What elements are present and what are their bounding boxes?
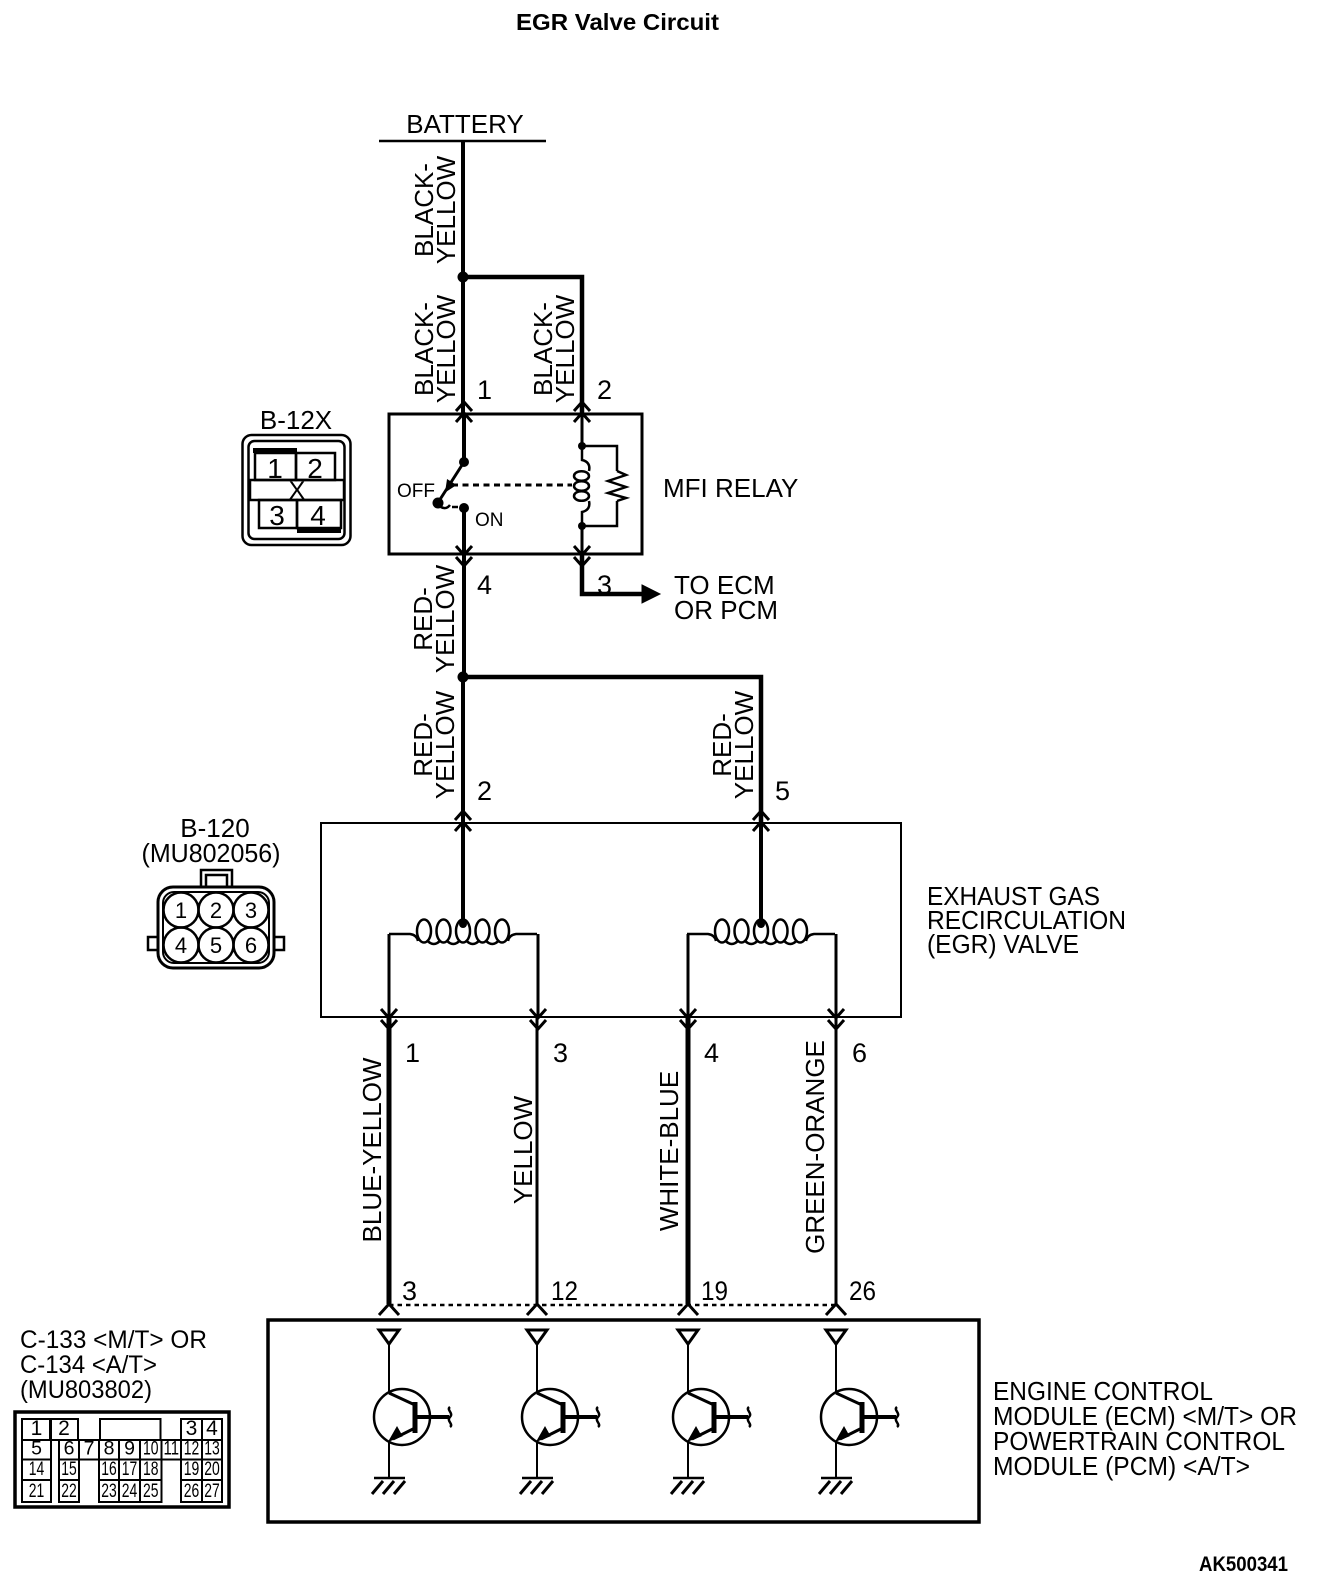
svg-text:(MU803802): (MU803802): [20, 1376, 152, 1404]
relay switch output wire: [462, 508, 466, 554]
svg-text:12: 12: [551, 1276, 578, 1306]
svg-text:19: 19: [701, 1276, 728, 1306]
EGR solenoid B right lead: [835, 934, 838, 1017]
connector chevron ECM pin 12: [527, 1304, 547, 1315]
wire battery to junction (black-yellow): [461, 141, 465, 279]
svg-text:5: 5: [775, 776, 790, 806]
connector C-133 cavity 26: [181, 1480, 202, 1502]
wire relay pin 4 to junction (red-yellow): [462, 554, 466, 679]
wire relay pin 3 to ECM/PCM: [582, 554, 642, 594]
ECM box: [268, 1320, 979, 1522]
svg-text:C-134 <A/T>: C-134 <A/T>: [20, 1351, 157, 1379]
svg-text:13: 13: [204, 1438, 220, 1460]
relay ON contact: [459, 503, 469, 513]
junction node (battery feed split): [458, 272, 469, 283]
svg-text:YELLOW: YELLOW: [729, 690, 759, 799]
svg-text:6: 6: [64, 1438, 75, 1460]
connector arrows relay pin 2 (top): [574, 402, 590, 411]
wire label RED-YELLOW (EGR pin 5): [707, 690, 759, 799]
relay actuation dashed link: [452, 484, 572, 487]
wire EGR pin 1 to ECM pin 3 (blue-yellow): [387, 1017, 392, 1304]
relay switch feed wire: [462, 414, 466, 462]
svg-text:18: 18: [143, 1458, 159, 1480]
relay resistor (parallel with coil): [582, 446, 617, 471]
battery bus bar: [379, 140, 546, 143]
input triangle Q1: [379, 1330, 399, 1344]
input triangle Q2: [527, 1330, 547, 1344]
connector B-12X cell 3: [259, 500, 297, 528]
connector C-133 cavity 15: [59, 1460, 79, 1481]
wire branch junction to EGR pin 5: [463, 677, 761, 823]
connector B-120 cavity 2: [199, 893, 234, 928]
connector arrows relay pin 4 (bottom): [456, 546, 472, 555]
relay switch arm (shown OFF): [439, 462, 464, 501]
svg-text:26: 26: [849, 1276, 876, 1306]
EGR solenoid B left lead: [687, 934, 690, 1017]
connector C-133 cavity 18: [140, 1460, 162, 1481]
svg-text:27: 27: [204, 1480, 220, 1502]
svg-text:8: 8: [104, 1438, 115, 1460]
connector arrows EGR pin 5 (top): [753, 811, 769, 820]
EGR solenoid A tap node: [459, 920, 467, 928]
svg-text:ON: ON: [475, 510, 504, 531]
svg-text:1: 1: [405, 1038, 420, 1068]
svg-text:YELLOW: YELLOW: [430, 690, 460, 799]
input triangle Q3: [678, 1330, 698, 1344]
svg-text:BATTERY: BATTERY: [406, 109, 524, 139]
connector C-133 cavity 17: [119, 1460, 140, 1481]
svg-text:4: 4: [310, 500, 326, 531]
wire EGR pin 6 to ECM pin 26 (green-orange): [835, 1017, 838, 1304]
svg-text:22: 22: [61, 1480, 77, 1502]
connector B-120 cavity 4: [164, 928, 199, 963]
connector arrows EGR pin 2 (top): [455, 811, 471, 820]
svg-text:YELLOW: YELLOW: [431, 294, 461, 403]
transistor Q4: [835, 1344, 837, 1393]
svg-text:(MU802056): (MU802056): [142, 838, 281, 868]
svg-text:4: 4: [175, 933, 187, 958]
connector arrows relay pin 3 (bottom): [574, 546, 590, 555]
svg-text:19: 19: [184, 1458, 200, 1480]
ground (Q3 emitter): [673, 1477, 704, 1480]
connector arrows EGR pin 4 (bottom): [680, 1009, 696, 1018]
connector C-133 cavity 20: [202, 1460, 222, 1481]
MFI relay box: [389, 414, 642, 554]
svg-text:2: 2: [597, 375, 612, 405]
connector C-133 cavity 9: [119, 1440, 140, 1460]
ground (Q2 emitter): [522, 1477, 553, 1480]
svg-text:5: 5: [31, 1438, 42, 1460]
svg-text:(EGR) VALVE: (EGR) VALVE: [927, 929, 1079, 959]
svg-text:WHITE-BLUE: WHITE-BLUE: [654, 1071, 684, 1231]
connector C-133 cavity 3: [181, 1419, 202, 1440]
connector C-133 cavity 23: [99, 1480, 119, 1502]
connector B-120 cavity 5: [199, 928, 234, 963]
EGR solenoid B feed wire: [759, 823, 763, 924]
svg-text:23: 23: [101, 1480, 117, 1502]
ground (Q1 emitter): [374, 1477, 405, 1480]
EGR solenoid A right lead: [537, 934, 540, 1017]
svg-text:YELLOW: YELLOW: [508, 1095, 538, 1204]
connector C-133 cavity 2: [50, 1419, 78, 1440]
connector C-133 cavity 6: [59, 1440, 79, 1460]
ground (Q4 emitter): [821, 1477, 852, 1480]
svg-text:21: 21: [29, 1480, 45, 1502]
connector C-133 cavity 22: [59, 1480, 79, 1502]
svg-text:15: 15: [61, 1458, 77, 1480]
connector C-133 cavity 7: [79, 1440, 99, 1460]
connector arrows EGR pin 6 (bottom): [828, 1009, 844, 1018]
arrowhead to ECM or PCM: [642, 585, 660, 603]
svg-text:9: 9: [124, 1438, 135, 1460]
connector C-133 cavity 27: [202, 1480, 222, 1502]
svg-text:10: 10: [143, 1438, 159, 1460]
svg-text:5: 5: [210, 933, 222, 958]
connector B-12X key bar top: [253, 448, 297, 453]
connector C-133 cavity 1: [22, 1419, 51, 1440]
svg-text:3: 3: [553, 1038, 568, 1068]
relay coil: [582, 446, 589, 471]
svg-text:GREEN-ORANGE: GREEN-ORANGE: [800, 1040, 830, 1254]
svg-text:YELLOW: YELLOW: [431, 155, 461, 264]
EGR valve box: [321, 823, 901, 1017]
connector chevron ECM pin 26: [826, 1304, 846, 1315]
svg-text:3: 3: [269, 500, 285, 531]
EGR solenoid A feed wire: [461, 823, 465, 924]
wire label BLACK-YELLOW (battery feed): [409, 155, 461, 264]
svg-text:2: 2: [477, 776, 492, 806]
connector C-133 cavity 5: [22, 1440, 51, 1460]
transistor Q3: [687, 1344, 689, 1393]
connector chevron ECM pin 19: [678, 1304, 698, 1315]
connector C-133 cavity 4: [202, 1419, 222, 1440]
wire label RED-YELLOW (EGR pin 2): [408, 690, 460, 799]
connector B-120 cavity 1: [164, 893, 199, 928]
svg-text:2: 2: [210, 898, 222, 923]
svg-text:7: 7: [84, 1438, 95, 1460]
relay switch pivot node: [459, 457, 469, 467]
svg-text:17: 17: [122, 1458, 138, 1480]
svg-text:6: 6: [245, 933, 257, 958]
connector C-133 cavity 12: [181, 1440, 202, 1460]
wire junction to EGR pin 2: [461, 677, 465, 823]
relay coil bottom node: [578, 522, 586, 530]
connector C-133 outline: [15, 1412, 229, 1507]
wire label GREEN-ORANGE: [800, 1040, 830, 1254]
wire label BLACK-YELLOW (relay pin 2): [528, 294, 580, 403]
svg-text:B-12X: B-12X: [260, 405, 332, 435]
connector B-12X outline: [243, 435, 351, 545]
svg-text:3: 3: [245, 898, 257, 923]
wire label RED-YELLOW (relay output): [408, 564, 460, 673]
transistor Q2: [536, 1344, 538, 1393]
connector C-133 cavity 19: [181, 1460, 202, 1481]
wire label BLUE-YELLOW: [357, 1057, 387, 1242]
connector C-133 key cavity: [100, 1419, 161, 1440]
ECM connector dashed line: [389, 1304, 836, 1307]
connector C-133 cavity 16: [99, 1460, 119, 1481]
svg-text:BLUE-YELLOW: BLUE-YELLOW: [357, 1057, 387, 1242]
connector arrows EGR pin 3 (bottom): [530, 1009, 546, 1018]
connector C-133 cavity 8: [99, 1440, 119, 1460]
svg-text:YELLOW: YELLOW: [550, 294, 580, 403]
svg-text:OR PCM: OR PCM: [674, 595, 778, 625]
wire EGR pin 4 to ECM pin 19 (white-blue): [686, 1017, 691, 1304]
connector arrows relay pin 1 (top): [456, 402, 472, 411]
connector B-120 body: [158, 887, 274, 968]
EGR solenoid B coil: [715, 920, 729, 943]
svg-text:MFI RELAY: MFI RELAY: [663, 473, 798, 503]
svg-text:4: 4: [704, 1038, 719, 1068]
svg-text:24: 24: [122, 1480, 138, 1502]
connector C-133 cavity 24: [119, 1480, 140, 1502]
wire branch junction to relay pin 2: [463, 277, 582, 414]
relay coil top node: [578, 442, 586, 450]
connector C-133 cavity 13: [202, 1440, 222, 1460]
connector B-120 cavity 3: [234, 893, 269, 928]
svg-text:OFF: OFF: [397, 481, 435, 502]
svg-text:1: 1: [477, 375, 492, 405]
connector B-12X cell 4: [297, 500, 341, 528]
svg-text:EGR Valve Circuit: EGR Valve Circuit: [516, 9, 719, 35]
svg-text:26: 26: [184, 1480, 200, 1502]
svg-text:11: 11: [164, 1438, 180, 1460]
svg-text:MODULE (PCM) <A/T>: MODULE (PCM) <A/T>: [993, 1451, 1250, 1481]
connector C-133 cavity 11: [162, 1440, 182, 1460]
svg-text:14: 14: [29, 1458, 45, 1480]
svg-text:20: 20: [204, 1458, 220, 1480]
connector B-12X cell 2: [296, 453, 335, 480]
connector B-12X key band with X: [250, 480, 344, 500]
transistor Q1: [388, 1344, 390, 1393]
wire junction to relay pin 1: [461, 277, 465, 414]
wire label YELLOW: [508, 1095, 538, 1204]
relay coil upper lead: [581, 414, 584, 446]
svg-text:16: 16: [101, 1458, 117, 1480]
relay coil lower lead: [581, 526, 584, 554]
connector C-133 cavity 10: [140, 1440, 162, 1460]
svg-text:AK500341: AK500341: [1199, 1552, 1288, 1576]
connector B-120 side tabs: [148, 937, 158, 950]
connector chevron ECM pin 3: [379, 1304, 399, 1315]
connector C-133 cavity 14: [22, 1460, 51, 1481]
svg-text:6: 6: [852, 1038, 867, 1068]
wire label BLACK-YELLOW (relay pin 1): [409, 294, 461, 403]
connector B-120 cavity 6: [234, 928, 269, 963]
svg-text:12: 12: [184, 1438, 200, 1460]
svg-text:3: 3: [402, 1276, 417, 1306]
input triangle Q4: [826, 1330, 846, 1344]
junction node (red-yellow split): [458, 672, 469, 683]
svg-text:YELLOW: YELLOW: [430, 564, 460, 673]
svg-text:25: 25: [143, 1480, 159, 1502]
EGR solenoid A coil: [417, 920, 431, 943]
EGR solenoid A left lead: [388, 934, 391, 1017]
wire EGR pin 3 to ECM pin 12 (yellow): [536, 1017, 539, 1304]
svg-text:1: 1: [175, 898, 187, 923]
svg-text:C-133 <M/T> OR: C-133 <M/T> OR: [20, 1326, 207, 1354]
connector C-133 cavity 21: [22, 1480, 51, 1502]
connector B-120 top tab: [201, 870, 232, 886]
connector B-12X cell 1: [255, 453, 296, 480]
EGR solenoid B tap node: [757, 920, 765, 928]
svg-text:4: 4: [477, 570, 492, 600]
connector B-12X key bar bottom: [297, 528, 341, 533]
wire label WHITE-BLUE: [654, 1071, 684, 1231]
relay OFF contact: [433, 498, 444, 509]
connector C-133 cavity 25: [140, 1480, 162, 1502]
connector arrows EGR pin 1 (bottom): [381, 1009, 397, 1018]
